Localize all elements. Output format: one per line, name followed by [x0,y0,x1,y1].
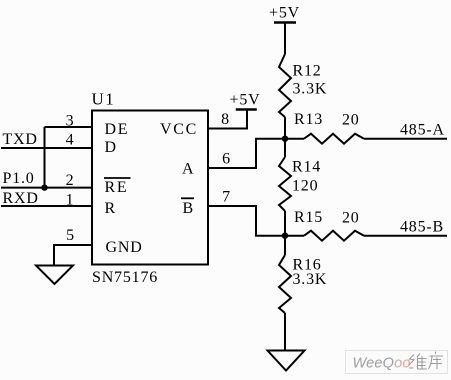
overline RE [104,177,131,179]
overline B [181,197,194,199]
svg-text:SN75176: SN75176 [92,269,158,286]
svg-text:4: 4 [66,132,75,149]
wire RXD to pin 1 (R) [1,205,92,207]
wire P1.0 to pin 2 (RE) [1,187,92,189]
svg-text:8: 8 [221,111,230,128]
junction enable net [41,184,47,190]
wire R16 to ground [284,313,286,351]
svg-text:20: 20 [342,210,360,227]
wire R14 to node B [284,211,286,236]
svg-text:R: R [105,200,116,217]
wire TXD to pin 4 (D) [1,147,92,149]
wire node A to R14 [284,139,286,157]
svg-text:GND: GND [106,239,143,256]
ground (right) [268,351,305,371]
resistor R13 [304,134,364,144]
wire pin 6 (A) to node A [208,139,285,168]
svg-text:VCC: VCC [160,121,198,138]
svg-text:R12: R12 [293,63,322,80]
svg-text:R15: R15 [294,209,323,226]
svg-text:3: 3 [66,113,75,130]
resistor R15 [304,231,364,241]
wire pin 7 (B) to node B [208,206,285,236]
ground (left) [36,266,73,285]
svg-text:RE: RE [105,179,129,196]
svg-text:RXD: RXD [3,190,39,207]
junction node B [282,233,288,239]
IC U1 body (SN75176) [92,111,208,265]
wire R12 to node A [284,117,286,139]
svg-text:2: 2 [66,172,75,189]
resistor R14 [279,157,291,211]
svg-text:6: 6 [222,151,231,168]
svg-text:R14: R14 [292,159,321,176]
svg-text:20: 20 [342,112,360,129]
svg-text:5: 5 [66,227,75,244]
svg-text:DE: DE [105,121,130,138]
wire node B to R16 [284,236,286,255]
svg-text:1: 1 [66,192,75,209]
svg-text:P1.0: P1.0 [3,170,35,187]
svg-text:WeeQoo: WeeQoo [353,356,411,372]
wire R13 to 485-A [364,138,447,140]
svg-text:485-B: 485-B [400,219,444,236]
svg-text:R13: R13 [294,111,323,128]
svg-text:B: B [183,200,194,217]
wire R15 to 485-B [364,235,447,237]
svg-text:D: D [105,139,117,156]
svg-text:7: 7 [222,189,231,206]
svg-text:3.3K: 3.3K [293,81,328,98]
svg-text:3.3K: 3.3K [293,271,328,288]
wire jumper DE to RE enable net [44,127,46,188]
resistor R12 [279,54,291,117]
wire node B to R15 [285,235,304,237]
svg-text:+5V: +5V [230,92,261,109]
svg-text:TXD: TXD [3,131,38,148]
wire pin 5 (GND) to ground [54,245,92,266]
svg-text:A: A [182,161,194,178]
resistor R16 [279,255,291,313]
junction node A [282,136,288,142]
wire +5V rail to R12 [284,23,286,55]
svg-text:120: 120 [292,178,318,195]
power +5V symbol (near pin 8) [236,108,257,111]
power +5V symbol (top rail) [274,21,296,24]
svg-text:+5V: +5V [269,5,300,22]
svg-text:485-A: 485-A [400,122,445,139]
svg-text:U1: U1 [92,90,116,109]
wire pin 8 (VCC) to +5V [208,110,247,129]
wire pin 3 (DE) stub [45,126,93,128]
wire node A to R13 [285,138,304,140]
